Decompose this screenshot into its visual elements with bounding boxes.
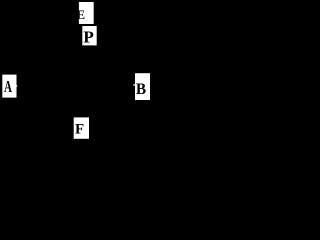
svg-text:F: F — [75, 122, 84, 138]
wire stub at A — [15, 85, 18, 87]
node E box — [79, 2, 94, 24]
svg-text:B: B — [136, 81, 146, 98]
node B box — [135, 73, 150, 100]
node F box — [74, 117, 89, 138]
node P box — [82, 26, 96, 45]
svg-text:P: P — [83, 27, 93, 46]
svg-text:A: A — [4, 77, 12, 96]
svg-text:E: E — [77, 8, 86, 22]
wire stub at B — [133, 84, 135, 85]
node A box — [2, 75, 16, 98]
